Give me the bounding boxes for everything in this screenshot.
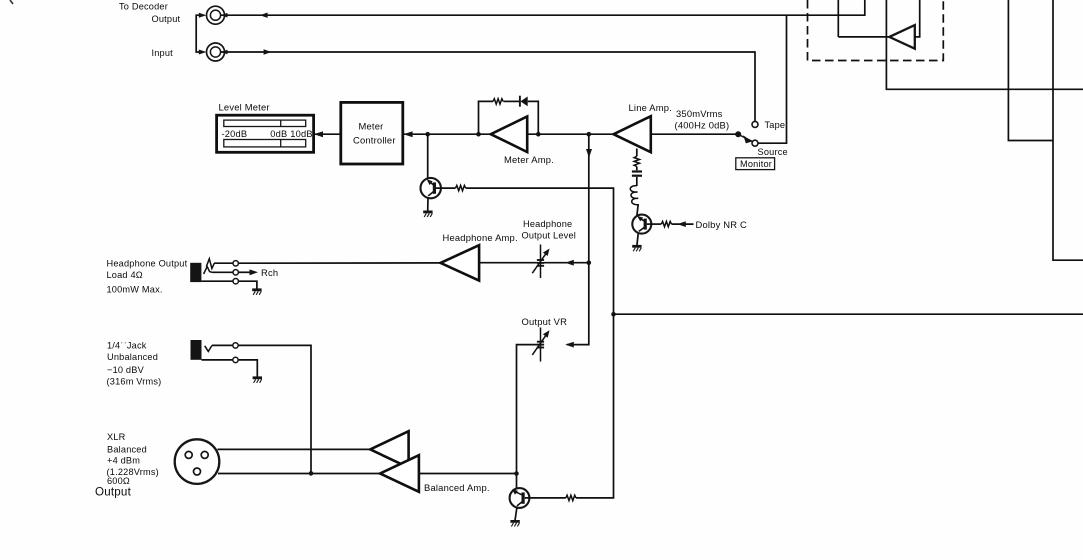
wire: long line to right edge xyxy=(614,313,1083,315)
label Tape xyxy=(765,120,786,130)
svg-text:Tape: Tape xyxy=(765,120,786,130)
ground G2 xyxy=(632,246,641,251)
wire: Q1 base line to vertical B xyxy=(466,188,614,314)
dashed box (NR section) xyxy=(808,0,944,61)
label Headphone Amp. xyxy=(443,232,518,243)
svg-text:Rch: Rch xyxy=(261,267,278,278)
wire: Input line to Tape contact xyxy=(221,50,756,122)
wire: headphone amp to jack xyxy=(239,262,441,264)
wire: output line vertical at top right xyxy=(837,0,839,37)
label Balanced Amp. xyxy=(424,482,490,493)
svg-text:Unbalanced: Unbalanced xyxy=(107,352,158,362)
svg-text:Monitor: Monitor xyxy=(740,159,772,169)
node: 1/4 jack junction xyxy=(309,471,314,476)
transistor Q2 xyxy=(632,215,651,246)
wire: U7 input from top xyxy=(915,0,920,37)
svg-text:Load 4Ω: Load 4Ω xyxy=(107,270,143,280)
switch S1 pole and lever xyxy=(735,131,752,143)
jack J3 contact bottom xyxy=(201,279,238,284)
ground G5 xyxy=(253,378,262,383)
svg-text:Dolby NR C: Dolby NR C xyxy=(696,219,748,230)
potentiometer VR2 Output VR xyxy=(532,328,549,362)
svg-text:Source: Source xyxy=(758,147,788,157)
wire: right column 2 xyxy=(1053,0,1083,260)
wire: VR1 to headphone amp xyxy=(479,262,537,264)
op-amp U6a balanced amp upper xyxy=(370,431,408,467)
node: long line branch on vertical B xyxy=(611,312,616,317)
resistor R4 (Dolby line) xyxy=(647,221,672,226)
potentiometer VR1 Headphone Output Level xyxy=(532,245,549,279)
label Headphone Output block xyxy=(107,259,188,295)
svg-text:+4 dBm: +4 dBm xyxy=(107,456,140,466)
svg-text:Output Level: Output Level xyxy=(522,230,577,240)
svg-text:Level Meter: Level Meter xyxy=(219,101,270,112)
wire: line amp to R3 xyxy=(636,149,638,157)
svg-text:Output VR: Output VR xyxy=(522,316,568,327)
wire: main bus xyxy=(404,131,614,137)
jack J4 contact bottom xyxy=(202,357,239,362)
node: feedback left xyxy=(476,132,481,137)
wire: J4 sleeve to ground xyxy=(238,360,257,377)
svg-text:350mVrms: 350mVrms xyxy=(676,108,723,119)
wire: J3 sleeve to ground xyxy=(238,281,257,289)
wire: XLR pin3 to lower amp xyxy=(218,473,380,475)
label XLR block xyxy=(107,432,159,486)
resistor R5 (Q3 base) xyxy=(566,495,576,500)
svg-text:−10 dBV: −10 dBV xyxy=(107,365,145,375)
label Output section xyxy=(95,486,132,499)
rca jack J1 Output xyxy=(207,6,225,24)
wire: XLR pin2 to upper amp xyxy=(218,448,371,450)
svg-text:Input: Input xyxy=(152,48,174,58)
wire: meter controller to level meter xyxy=(314,131,341,137)
svg-text:Headphone Output: Headphone Output xyxy=(107,259,188,269)
wire: J4 tip to balanced line xyxy=(238,345,311,473)
wire: right column 1 xyxy=(1008,0,1053,141)
resistor R2 (Q1 base) xyxy=(436,185,466,190)
label Rch xyxy=(261,267,278,278)
svg-text:Balanced Amp.: Balanced Amp. xyxy=(424,482,490,493)
label Monitor (boxed) xyxy=(736,158,775,170)
jack J4 tip spring xyxy=(205,346,212,352)
inductor L1 xyxy=(630,186,639,205)
resistor R3 xyxy=(634,156,639,166)
resistor R1 (feedback) xyxy=(493,99,503,104)
wire: L1 to Q2 xyxy=(637,204,638,216)
wire: Dolby NR C feed xyxy=(672,221,694,227)
node: bus junction to vertical A xyxy=(587,132,592,137)
switch S1 Source contact xyxy=(752,140,758,146)
label Dolby NR C xyxy=(696,219,748,230)
label Meter Amp. xyxy=(504,154,554,165)
wire: Source contact to output line xyxy=(758,15,787,143)
svg-text:0dB 10dB: 0dB 10dB xyxy=(270,129,312,139)
op-amp U6b balanced amp lower xyxy=(380,455,419,492)
label Line Amp. xyxy=(629,102,673,113)
arrowhead on output line (left) xyxy=(260,13,268,18)
wire: meter amp feedback loop xyxy=(479,101,539,134)
jack J4 contact top xyxy=(212,343,238,348)
xlr connector J5 xyxy=(175,439,220,484)
svg-text:Meter: Meter xyxy=(359,121,384,132)
svg-text:Headphone: Headphone xyxy=(523,219,572,229)
op-amp U3 Meter Amp xyxy=(491,116,527,152)
jack J3 contact mid xyxy=(212,270,238,275)
svg-text:XLR: XLR xyxy=(107,432,126,442)
wire: line amp input to pole xyxy=(651,133,736,135)
meter controller U2 box xyxy=(341,102,403,164)
svg-text:1/4ˈˈJack: 1/4ˈˈJack xyxy=(107,341,147,351)
svg-text:Controller: Controller xyxy=(353,134,396,145)
label Level Meter xyxy=(219,101,270,112)
node: bus junction to Q1 xyxy=(425,132,430,137)
svg-text:Output: Output xyxy=(152,14,181,24)
wire: Q3 base resistor xyxy=(525,497,566,499)
scan speck xyxy=(10,0,13,4)
bracket wire to decoder xyxy=(196,13,206,55)
svg-text:-20dB: -20dB xyxy=(222,129,248,139)
ground G3 xyxy=(510,521,519,526)
label To Decoder xyxy=(119,2,168,12)
wire: headphone branch to VR1 xyxy=(544,260,589,266)
wire: R3 to C1 xyxy=(636,167,638,171)
transistor Q3 xyxy=(510,488,530,520)
level meter M1 box xyxy=(217,115,314,152)
headphone jack J3 body xyxy=(190,263,201,282)
diode D1 (feedback) xyxy=(520,96,528,107)
arrowhead on input line (right) xyxy=(264,49,272,54)
ground G1 xyxy=(423,212,432,217)
transistor Q1 xyxy=(421,178,441,211)
op-amp U5 Headphone Amp xyxy=(441,245,480,280)
label 350mVrms xyxy=(676,108,723,119)
node: headphone branch xyxy=(587,260,592,265)
wire: to U7 output xyxy=(838,36,889,38)
node: feedback right xyxy=(536,132,541,137)
svg-text:To Decoder: To Decoder xyxy=(119,2,168,12)
wire: VR2 to balanced amp junction xyxy=(517,345,538,489)
label Source xyxy=(758,147,788,157)
label Headphone Output Level xyxy=(522,219,577,240)
switch S1 Tape contact xyxy=(752,121,758,127)
label (400Hz 0dB) xyxy=(675,119,730,130)
svg-text:(400Hz 0dB): (400Hz 0dB) xyxy=(675,119,730,130)
svg-text:100mW Max.: 100mW Max. xyxy=(107,284,163,294)
node: balanced amp junction xyxy=(514,471,519,476)
svg-text:Balanced: Balanced xyxy=(107,445,147,455)
arrowhead into VR2 xyxy=(565,342,574,348)
wire: C1 to L1 xyxy=(636,177,638,186)
svg-text:Line Amp.: Line Amp. xyxy=(629,102,673,113)
label Input (RCA) xyxy=(152,48,174,58)
rca jack J2 Input xyxy=(207,43,225,61)
wire: vertical A bus to output VR xyxy=(567,134,592,344)
wire: long vertical through dashed box xyxy=(886,0,1083,89)
jack J3 contact top xyxy=(214,261,238,266)
label Output VR xyxy=(522,316,568,327)
ground G4 xyxy=(252,290,261,295)
wire: Rch arrow xyxy=(238,269,258,275)
op-amp U4 Line Amp xyxy=(614,116,651,152)
wire: Output line to top right xyxy=(221,0,865,18)
wire: balanced amp input line xyxy=(419,473,517,475)
label Output (RCA) xyxy=(152,14,181,24)
jack J3 tip spring upper xyxy=(206,259,214,269)
label 1/4 jack block xyxy=(107,341,162,387)
wire: vertical B down to Q3 base xyxy=(576,314,614,498)
op-amp U7 (top right) xyxy=(889,25,915,49)
svg-text:Output: Output xyxy=(95,486,132,499)
svg-text:(316m Vrms): (316m Vrms) xyxy=(107,377,162,387)
1/4 jack J4 body xyxy=(191,340,202,360)
svg-text:Headphone Amp.: Headphone Amp. xyxy=(443,232,518,243)
jack J3 tip spring lower xyxy=(204,267,212,274)
svg-text:Meter Amp.: Meter Amp. xyxy=(504,154,554,165)
capacitor C1 xyxy=(632,172,642,176)
wire: bus to Q1 collector xyxy=(427,134,429,178)
